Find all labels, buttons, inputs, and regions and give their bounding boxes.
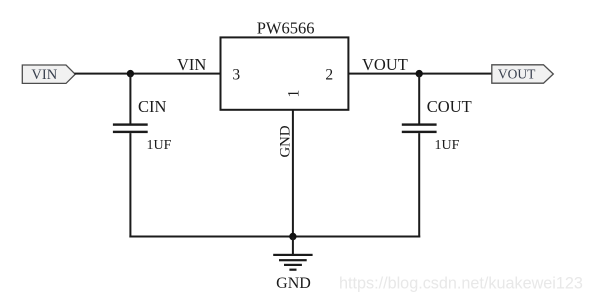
- wire U1 pin 2 to VOUT port: [348, 73, 492, 75]
- wire VIN port to U1 pin 3: [75, 73, 222, 75]
- svg-text:VOUT: VOUT: [362, 55, 408, 74]
- port VOUT: [492, 65, 554, 83]
- svg-text:3: 3: [232, 67, 240, 84]
- capacitor C2 COUT: [402, 123, 437, 133]
- svg-text:1UF: 1UF: [435, 138, 460, 153]
- svg-text:1UF: 1UF: [147, 138, 172, 153]
- wire ground stub: [292, 237, 294, 256]
- svg-text:PW6566: PW6566: [257, 19, 315, 38]
- wire right branch lower (COUT to bottom rail): [418, 133, 420, 237]
- wire right branch upper (junction to COUT): [418, 74, 420, 124]
- junction node bottom: [289, 233, 296, 240]
- junction node left: [127, 70, 134, 77]
- svg-text:2: 2: [325, 67, 333, 84]
- svg-text:CIN: CIN: [138, 97, 167, 116]
- wire U1 GND pin to bottom rail: [292, 110, 294, 237]
- svg-text:VIN: VIN: [177, 55, 206, 74]
- svg-text:VIN: VIN: [31, 67, 57, 83]
- capacitor C1 CIN: [113, 123, 148, 133]
- junction node right: [416, 70, 423, 77]
- wire left branch upper (junction to CIN): [129, 74, 131, 124]
- wire bottom rail: [129, 236, 420, 238]
- svg-text:GND: GND: [277, 125, 293, 157]
- wire left branch lower (CIN to bottom rail): [129, 133, 131, 237]
- port VIN: [22, 65, 75, 83]
- svg-text:GND: GND: [276, 275, 311, 292]
- IC U1 PW6566 body: [221, 37, 349, 109]
- svg-text:1: 1: [285, 90, 302, 98]
- svg-text:COUT: COUT: [427, 97, 472, 116]
- svg-text:VOUT: VOUT: [498, 67, 536, 82]
- ground symbol: [273, 254, 312, 271]
- svg-text:https://blog.csdn.net/kuakewei: https://blog.csdn.net/kuakewei123: [339, 274, 583, 292]
